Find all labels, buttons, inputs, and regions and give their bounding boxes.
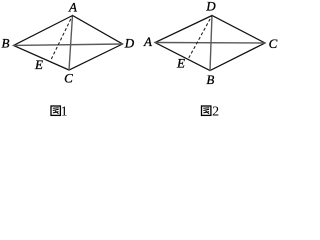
svg-text:E: E xyxy=(176,56,185,71)
svg-text:D: D xyxy=(205,0,216,13)
svg-text:B: B xyxy=(206,72,214,87)
svg-text:E: E xyxy=(34,57,43,72)
svg-text:1: 1 xyxy=(61,105,68,120)
svg-text:C: C xyxy=(269,36,278,51)
svg-text:B: B xyxy=(2,36,10,51)
svg-text:A: A xyxy=(68,0,77,15)
svg-text:C: C xyxy=(64,70,73,85)
svg-text:A: A xyxy=(143,34,152,49)
svg-text:2: 2 xyxy=(212,105,219,120)
svg-text:D: D xyxy=(124,36,135,51)
